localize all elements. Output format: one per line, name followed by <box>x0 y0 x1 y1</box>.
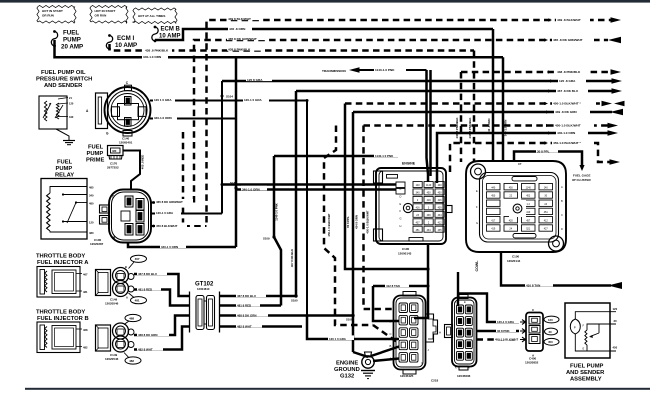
wire relay 120-1.0 GRA stub <box>151 213 222 215</box>
arrow 450 left <box>614 101 625 107</box>
svg-text:120-1 0 GRA: 120-1 0 GRA <box>244 98 263 102</box>
svg-text:FUEL INJECTOR A: FUEL INJECTOR A <box>37 260 89 266</box>
svg-text:AND SENDER: AND SENDER <box>44 83 83 89</box>
wire C218 top to C400 (120-1.0 GRA) <box>458 294 519 323</box>
svg-text:D: D <box>400 194 402 198</box>
svg-text:340-1.0 ORN: 340-1.0 ORN <box>242 187 260 191</box>
svg-text:TRANSMISSION: TRANSMISSION <box>322 69 346 73</box>
svg-text:427: 427 <box>544 228 549 231</box>
C218 bottom tab <box>459 366 468 370</box>
svg-text:439: 439 <box>427 214 432 217</box>
svg-text:410 8 TAN: 410 8 TAN <box>526 284 540 288</box>
wire 1140-1.0 PNK horizontal into ENGINE <box>274 155 398 158</box>
svg-text:438 .8 PNK/BLK: 438 .8 PNK/BLK <box>468 118 472 139</box>
svg-text:S190: S190 <box>291 299 298 303</box>
wire 80 .8 PPL vertical to D2 feed <box>345 104 428 270</box>
svg-text:482: 482 <box>129 359 134 363</box>
svg-text:450-1 0 BLK/WHT: 450-1 0 BLK/WHT <box>366 210 370 233</box>
pressure switch variable resistor 2 <box>56 103 59 119</box>
svg-text:481: 481 <box>83 290 88 294</box>
svg-text:450: 450 <box>613 346 618 350</box>
svg-text:D: D <box>561 227 563 231</box>
wire 439 .8 DK GRN to right edge <box>353 111 612 114</box>
svg-text:K: K <box>455 366 457 370</box>
svg-text:12020287: 12020287 <box>90 242 104 246</box>
connector 12045425 body <box>394 296 426 370</box>
svg-text:434: 434 <box>427 229 432 232</box>
ENGINE connector right tab <box>446 206 452 213</box>
svg-text:ECM B: ECM B <box>161 27 181 33</box>
svg-text:30: 30 <box>614 319 618 323</box>
svg-text:340-1.0 ORN: 340-1.0 ORN <box>143 55 162 59</box>
relay internal wire pin 480 (lower) <box>50 231 87 232</box>
svg-text:12020852: 12020852 <box>525 361 539 365</box>
svg-text:434 8 ORN: 434 8 ORN <box>355 215 359 229</box>
wire relay 340-1.0 ORN bottom stub <box>128 242 236 247</box>
svg-text:RELAY: RELAY <box>55 173 74 179</box>
svg-text:C100: C100 <box>512 255 520 259</box>
svg-text:B: B <box>390 344 392 348</box>
fuel pump oil pressure switch box <box>39 96 67 129</box>
svg-text:482: 482 <box>83 345 88 349</box>
injector A cavity oval 467 <box>131 255 147 262</box>
svg-text:468: 468 <box>129 316 134 320</box>
arrow 439grn left (incoming) <box>610 109 623 115</box>
svg-text:1140: 1140 <box>526 186 532 189</box>
junction dot 412 TAN <box>427 285 430 288</box>
svg-text:439 .8 BLK/WHT: 439 .8 BLK/WHT <box>557 18 581 22</box>
svg-text:B: B <box>561 199 563 203</box>
svg-text:120: 120 <box>89 220 94 224</box>
svg-text:10 AMP: 10 AMP <box>115 42 137 49</box>
relay internal wire pin 340 <box>62 193 64 195</box>
svg-text:D: D <box>390 319 392 323</box>
fuel pump prime connector C170 <box>108 146 124 156</box>
wire 340-1.0 ORN vertical to COWL <box>502 57 505 162</box>
fuel pump motor symbol <box>570 319 580 334</box>
svg-text:E: E <box>390 307 392 311</box>
svg-text:417: 417 <box>491 219 496 222</box>
grommet GT102 body <box>189 292 191 333</box>
wire 412 TAN branch into pin D1 <box>373 286 399 321</box>
COWL connector inner body <box>480 173 559 243</box>
svg-text:468 8 DK GRN: 468 8 DK GRN <box>138 333 157 337</box>
connector C140 inner key cross <box>118 104 139 120</box>
C400 cavity oval 30 <box>545 328 558 335</box>
svg-text:468: 468 <box>83 328 88 332</box>
injector A connector C149 <box>96 270 111 296</box>
wire relay 450 .8 BLK/WHT stub (dashed) <box>151 225 207 227</box>
svg-text:C: C <box>561 213 563 217</box>
svg-text:THROTTLE BODY: THROTTLE BODY <box>36 254 85 260</box>
connector C140 pin 340 <box>125 118 132 127</box>
label 438 mid <box>227 46 261 51</box>
svg-text:12020144: 12020144 <box>507 259 521 263</box>
svg-text:340-1 0 ORN: 340-1 0 ORN <box>161 245 178 249</box>
svg-text:412: 412 <box>544 219 549 222</box>
svg-text:AND SENDER: AND SENDER <box>566 370 605 376</box>
node S187 <box>234 186 237 189</box>
svg-text:416: 416 <box>416 206 421 209</box>
wire C218 to C400 30 .8 PNK <box>477 330 520 333</box>
svg-text:465 8 DK GRN/WHT: 465 8 DK GRN/WHT <box>156 200 183 204</box>
svg-text:ENGINE: ENGINE <box>402 162 416 166</box>
ground symbol G132 <box>361 370 375 372</box>
injector A box <box>37 267 80 298</box>
svg-text:E: E <box>464 300 466 304</box>
arrow down fuel gage <box>579 165 584 171</box>
svg-text:467 8 DK BLU: 467 8 DK BLU <box>237 294 256 298</box>
node S104 <box>221 95 224 98</box>
svg-text:HOT IN START: HOT IN START <box>95 9 116 13</box>
svg-text:THROTTLE BODY: THROTTLE BODY <box>36 310 85 316</box>
svg-text:I P: I P <box>518 162 522 166</box>
connector C100 COWL outer body <box>466 161 566 252</box>
relay connector C100 body <box>109 190 151 243</box>
svg-text:K: K <box>422 361 424 365</box>
svg-text:438 .8 PNK/BLK: 438 .8 PNK/BLK <box>557 70 581 74</box>
label 439 mid <box>227 15 261 20</box>
COWL connector keyway circle <box>513 204 522 213</box>
node S190 on 467 <box>294 294 297 297</box>
wire 450-1.0 BLK/WHT * to right edge (dashed) <box>345 102 605 105</box>
svg-text:451: 451 <box>544 211 549 214</box>
fuel pump relay box <box>41 179 87 240</box>
connector C218 body <box>452 298 477 367</box>
wire 340 vertical from top run to S187 <box>235 57 238 247</box>
svg-text:FUEL: FUEL <box>57 160 73 166</box>
svg-text:467: 467 <box>135 257 140 261</box>
svg-text:FUEL INJECTOR B: FUEL INJECTOR B <box>37 316 89 322</box>
wire 450-1.0 BLK/WHT mid vertical (dashed) <box>324 126 373 326</box>
wire 412 .8 TAN <box>373 285 428 288</box>
svg-text:451: 451 <box>416 229 421 232</box>
svg-text:468 8 DK GRN: 468 8 DK GRN <box>237 314 256 318</box>
svg-text:S104: S104 <box>226 95 233 99</box>
injector A internals <box>40 270 45 295</box>
arrow 410 left (incoming) <box>608 282 622 289</box>
svg-text:405 .8 RED: 405 .8 RED <box>141 155 145 169</box>
relay connector pin boxes <box>136 199 144 211</box>
svg-text:438 .8 PNK/BLK: 438 .8 PNK/BLK <box>145 49 169 53</box>
svg-text:E: E <box>583 347 585 351</box>
svg-text:450-1 0 BLK/WHT: 450-1 0 BLK/WHT <box>327 213 331 236</box>
svg-text:480: 480 <box>112 149 117 153</box>
wire GT102 right 468 .8 DK GRN <box>220 314 354 317</box>
svg-text:120: 120 <box>69 102 74 106</box>
svg-text:12020546: 12020546 <box>105 302 119 306</box>
svg-text:467 8 DK BLU: 467 8 DK BLU <box>290 249 294 267</box>
svg-text:450: 450 <box>427 192 432 195</box>
fuel pump sender wiper arrow <box>598 324 600 333</box>
svg-text:140: 140 <box>416 184 421 187</box>
svg-text:C100: C100 <box>402 247 410 251</box>
wire 440-1.0 ORN to right edge <box>437 133 608 183</box>
arrow 450c right <box>610 159 621 165</box>
svg-text:PRESSURE SWITCH: PRESSURE SWITCH <box>36 77 92 83</box>
ground symbol (pressure switch) <box>63 140 75 142</box>
COWL connector bottom slot <box>513 234 536 238</box>
svg-text:20 AMP: 20 AMP <box>61 44 83 51</box>
svg-text:340: 340 <box>89 193 94 197</box>
connector C140 bottom tab <box>123 131 132 137</box>
wire 30 .8 PPL from COWL to fuel gage <box>514 152 582 167</box>
ENGINE connector keyway circle <box>403 203 412 212</box>
svg-text:S109: S109 <box>263 237 270 241</box>
junction dot 120 branch <box>306 99 309 102</box>
svg-text:A: A <box>126 296 128 300</box>
wire 467 .8 DK BLU vertical (S190 up) <box>295 91 298 296</box>
C400 cavity oval 120 <box>544 316 559 323</box>
wire 120-1.0 GRA into ENGINE connector left <box>222 183 396 185</box>
svg-text:H: H <box>439 331 441 335</box>
svg-text:140: 140 <box>544 186 549 189</box>
fuel pump internal wiring top <box>575 312 616 319</box>
junction dot 468/120 crossing <box>306 314 309 317</box>
12045425 bottom tab <box>403 370 416 375</box>
svg-text:C218: C218 <box>431 379 439 383</box>
injector B cavity oval 482 <box>125 357 141 364</box>
svg-text:440-1.0 ORN: 440-1.0 ORN <box>557 131 576 135</box>
svg-text:C: C <box>390 332 392 336</box>
svg-text:450: 450 <box>548 340 553 344</box>
svg-text:467 .8 DK BLU: 467 .8 DK BLU <box>557 89 579 93</box>
ENGINE connector bottom slot <box>409 238 423 242</box>
svg-text:457: 457 <box>526 219 531 222</box>
wire 1140-1.0 PNK vertical with S109 jog <box>274 156 281 306</box>
C218 pin boxes <box>457 305 464 314</box>
svg-text:340: 340 <box>69 115 74 119</box>
svg-text:120: 120 <box>548 318 553 322</box>
svg-text:HOT IN START: HOT IN START <box>42 9 63 13</box>
svg-text:P: P <box>574 325 576 329</box>
supply box HOT IN START OR RUN (left) <box>37 5 76 23</box>
svg-text:GROUND: GROUND <box>334 367 360 373</box>
wire 465 .8 DK GRN/WHT (dashed, to right edge) <box>194 40 608 203</box>
svg-text:435: 435 <box>438 229 443 232</box>
svg-text:481 8 RED: 481 8 RED <box>237 304 251 308</box>
svg-text:440: 440 <box>491 186 496 189</box>
svg-text:80 8 PPL: 80 8 PPL <box>346 216 350 228</box>
svg-text:1140-1.0 PNK: 1140-1.0 PNK <box>375 68 395 72</box>
svg-text:439: 439 <box>438 206 443 209</box>
wire into C218 pin F from above <box>457 272 459 306</box>
svg-text:B: B <box>125 265 127 269</box>
wire 450-1.0 BLK/WHT second mid vertical (dashed) <box>364 126 397 310</box>
wire GT102 right 482 .8 WHT <box>220 325 303 328</box>
wire ENGINE bottom exit to 12045425 <box>414 244 428 318</box>
wire C218 to C400 450-1.0 BLK/WHT (dashed) <box>477 338 520 341</box>
svg-text:1140-1 0 PNK: 1140-1 0 PNK <box>375 154 394 158</box>
svg-text:OR RUN: OR RUN <box>95 14 107 18</box>
wire second vertical from transmission node into ENGINE <box>429 70 432 176</box>
C218 top tab <box>459 295 468 299</box>
connector C140 pin 120 <box>125 97 132 106</box>
supply box HOT AT ALL TIMES <box>133 8 177 24</box>
svg-text:12004810: 12004810 <box>197 287 210 291</box>
fuel pump internal wiring bottom <box>575 334 616 351</box>
arrow 467 right <box>612 88 623 94</box>
wire 439 .8 BLK/WHT (dashed, to right edge) <box>207 20 612 223</box>
wire 340-1.0 ORN from S187 into ENGINE connector left <box>236 188 396 190</box>
svg-text:A: A <box>468 366 470 370</box>
svg-text:G: G <box>428 315 430 319</box>
wire 450-1.0 BLK/WHT to right edge (dashed) <box>364 124 609 127</box>
svg-text:120 .8 GRA: 120 .8 GRA <box>559 79 576 83</box>
fuse FUEL PUMP 20 AMP <box>51 32 57 46</box>
arrow 438 right <box>611 69 622 75</box>
svg-text:E: E <box>476 189 478 193</box>
svg-text:ASSEMBLY: ASSEMBLY <box>570 377 602 383</box>
C400 pin boxes <box>529 317 540 325</box>
wire relay 465 .8 DK GRN/WHT stub (dashed) <box>151 202 194 204</box>
injector A cavity oval 481 <box>131 297 147 304</box>
svg-text:340: 340 <box>416 192 421 195</box>
svg-text:438 8 PNK/BLK: 438 8 PNK/BLK <box>228 47 251 51</box>
relay internal wire pin 480 (upper) <box>75 201 77 203</box>
wire GT102 right 467 .8 DK BLU <box>220 295 297 298</box>
COWL connector top-left ear <box>471 164 486 179</box>
svg-text:450-1.0 BLK/WHT: 450-1.0 BLK/WHT <box>555 124 581 128</box>
COWL connector bottom-right ear <box>549 236 564 251</box>
svg-text:440 .8 ORN: 440 .8 ORN <box>229 27 246 31</box>
svg-text:480: 480 <box>89 231 94 235</box>
svg-text:436 .8 PNK/BLK: 436 .8 PNK/BLK <box>455 118 459 139</box>
svg-text:410: 410 <box>526 211 531 214</box>
svg-text:440: 440 <box>438 184 443 187</box>
wire 440 .8 ORN vertical to COWL <box>492 29 495 162</box>
fuel pump sender wire 30 <box>587 324 616 330</box>
12045425 top tab <box>403 292 416 297</box>
ENGINE connector top slot <box>387 175 398 179</box>
ENGINE connector pin grid <box>413 182 422 188</box>
svg-text:450-1.0 BLK/WHT *: 450-1.0 BLK/WHT * <box>553 102 581 106</box>
svg-text:450 8 BLK/WHT: 450 8 BLK/WHT <box>156 224 178 228</box>
svg-text:412 8 TAN: 412 8 TAN <box>386 284 400 288</box>
relay switch arm <box>67 203 76 224</box>
C218 left latch <box>445 325 453 338</box>
svg-text:PUMP: PUMP <box>56 166 73 172</box>
svg-text:434: 434 <box>438 214 443 217</box>
svg-text:30 8 PNK: 30 8 PNK <box>497 329 510 333</box>
svg-text:485: 485 <box>89 185 94 189</box>
node S109 <box>272 235 275 238</box>
arrow 450b right <box>608 123 619 129</box>
wire 467 .8 DK BLU to right edge <box>296 90 612 93</box>
label 120 .8 GRA mid <box>246 76 272 81</box>
wire 120 .8 GRA to right edge <box>222 80 612 83</box>
injector B pin 468 <box>76 328 82 330</box>
svg-text:OR RUN: OR RUN <box>42 14 54 18</box>
svg-text:G: G <box>476 221 478 225</box>
svg-text:340-1.0 ORN: 340-1.0 ORN <box>154 116 172 120</box>
svg-text:PUMP: PUMP <box>87 151 104 157</box>
svg-text:420: 420 <box>509 219 514 222</box>
wire 438 .8 PNK/BLK from ECM I fuse (dashed) <box>110 44 475 51</box>
pressure switch pin 21 <box>58 98 68 100</box>
svg-text:482 8 WHT: 482 8 WHT <box>138 348 153 352</box>
svg-text:H: H <box>400 224 402 228</box>
wire 340-1.0 ORN from C140 sender <box>150 118 236 120</box>
svg-text:450: 450 <box>491 195 496 198</box>
page bottom border line <box>25 388 650 390</box>
svg-text:416: 416 <box>438 199 443 202</box>
connector C100 ENGINE body <box>376 168 446 244</box>
connector C140 top tab <box>125 85 132 91</box>
wire 1140-1.0 PNK to TRANSMISSION <box>358 69 427 71</box>
connector C140 left tab <box>96 93 108 129</box>
relay internal wire pin 485 <box>50 187 87 194</box>
svg-text:450-1.0 BLK/WHT *: 450-1.0 BLK/WHT * <box>553 141 581 145</box>
injector B pin 482 <box>76 346 82 348</box>
wire GT102 right 481 .8 RED <box>220 304 282 307</box>
pressure switch variable resistor 1 <box>44 101 47 121</box>
fuel pump and sender assembly box <box>565 303 610 358</box>
label lead-in ticks <box>548 18 552 21</box>
svg-text:12045425: 12045425 <box>400 374 414 378</box>
svg-text:12020546: 12020546 <box>105 357 119 361</box>
svg-text:10 AMP: 10 AMP <box>159 34 180 40</box>
injector B internals <box>40 325 45 350</box>
arrows into C400 <box>520 320 526 325</box>
fuse ECM B 10 AMP <box>152 27 158 41</box>
svg-text:450: 450 <box>438 192 443 195</box>
svg-text:1140-1 0 PNK: 1140-1 0 PNK <box>275 203 279 221</box>
ground wire from 434 vertical <box>353 352 368 357</box>
wire 120-1.0 GRA branch to x=306 <box>222 100 307 102</box>
svg-text:480: 480 <box>89 201 94 205</box>
svg-text:482 8 WHT: 482 8 WHT <box>237 325 252 329</box>
12045425 pin boxes <box>399 303 408 313</box>
wire 120 GRA long vertical to bottom connector <box>306 101 308 317</box>
svg-text:437: 437 <box>416 221 421 224</box>
ENGINE connector top-left tab <box>374 171 383 183</box>
connector C400 body <box>526 313 543 352</box>
svg-text:FUEL PUMP: FUEL PUMP <box>570 364 604 370</box>
arrow 450 right <box>602 101 613 107</box>
svg-text:452: 452 <box>526 195 531 198</box>
svg-text:467 8 DK BLU: 467 8 DK BLU <box>138 272 157 276</box>
COWL connector pin grid <box>487 184 501 190</box>
svg-text:2977252: 2977252 <box>107 166 119 170</box>
12045425 side shape H <box>426 314 438 342</box>
svg-text:COWL: COWL <box>475 260 479 272</box>
label 465 mid <box>227 35 269 40</box>
svg-text:450-1 0 BLK/WHT: 450-1 0 BLK/WHT <box>495 338 518 342</box>
wire 120 1.0 GRA into pin C1 <box>307 316 399 340</box>
svg-text:481: 481 <box>135 299 140 303</box>
wire 436 .8 PNK/BLK vertical to COWL (dashed) <box>460 72 463 162</box>
svg-text:120: 120 <box>613 307 618 311</box>
svg-text:12000143: 12000143 <box>398 252 412 256</box>
svg-text:HOT AT ALL TIMES: HOT AT ALL TIMES <box>138 14 165 18</box>
relay internal wire pin 120 <box>62 220 64 222</box>
svg-text:A: A <box>561 185 563 189</box>
wire 467 .8 DK BLU from injector A <box>134 274 190 296</box>
relay connector left tabs <box>100 205 110 213</box>
svg-text:E: E <box>400 202 402 206</box>
svg-text:419: 419 <box>491 228 496 231</box>
svg-text:PUMP: PUMP <box>63 37 81 44</box>
arrow 439 right <box>611 17 622 23</box>
label 120-1.0 GRA to C400 <box>496 318 524 323</box>
relay coil winding <box>47 193 50 231</box>
svg-text:12065401: 12065401 <box>119 141 133 145</box>
arrow transmission left <box>349 67 360 73</box>
svg-text:30 8 PPL: 30 8 PPL <box>537 150 550 154</box>
svg-text:G: G <box>400 217 402 221</box>
page top border bar <box>0 0 650 3</box>
